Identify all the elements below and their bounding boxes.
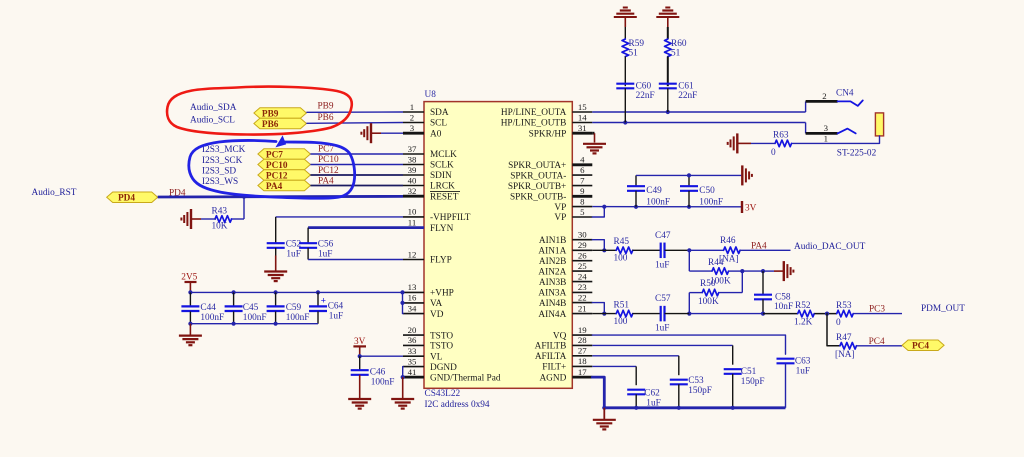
CN4 jack sleeve body [875, 113, 883, 136]
svg-text:5: 5 [580, 207, 585, 217]
port flag PB9 [254, 108, 307, 119]
pin 22 AIN4B stub [572, 302, 592, 304]
wire PB9 to pin 1 [306, 111, 403, 113]
R45 to C47 wire [633, 249, 661, 251]
junction VP pins [602, 205, 606, 209]
wire R44 to junction [729, 270, 742, 272]
svg-text:C63: C63 [795, 356, 811, 366]
R51 to C57 wire [633, 313, 661, 315]
pin 7 SPKR_OUTB+ stub [572, 185, 592, 187]
wire C49/C50 tops to ground [636, 174, 741, 176]
2V5 rail wire to pin 13 [190, 291, 403, 293]
wire PA4 to pin 40 [310, 185, 403, 187]
wire to sideways ground [763, 270, 774, 272]
resistor R63 [775, 140, 792, 147]
svg-text:C45: C45 [243, 303, 259, 313]
pin 4 SPKR_OUTA+ stub [572, 163, 592, 166]
pin 36 TSTO stub [403, 344, 424, 346]
svg-text:6: 6 [580, 165, 585, 175]
op-amp U8 CS43L22 codec body [424, 102, 572, 389]
svg-text:SPKR/HP: SPKR/HP [529, 129, 567, 139]
svg-text:SPKR_OUTA-: SPKR_OUTA- [510, 171, 566, 181]
junction node after C47 [687, 248, 691, 252]
svg-text:C56: C56 [318, 240, 334, 250]
svg-text:12: 12 [408, 249, 417, 259]
ground below C46 [348, 398, 371, 400]
wire pin 14 HP/LINE_OUTB to jack pin 3 [592, 122, 805, 124]
capacitor C52 1uF [275, 217, 277, 243]
junction C44 bottom [188, 322, 192, 326]
wire junction to C58 bottom node [689, 313, 763, 315]
svg-text:11: 11 [408, 217, 416, 227]
pin 2 SCL stub [403, 122, 424, 124]
wire junction to C58 node [742, 270, 763, 272]
wire pin 11 FLYN to C56 [308, 226, 403, 229]
svg-text:AFILTA: AFILTA [535, 352, 567, 362]
junction 3V/C46 [358, 354, 362, 358]
svg-text:PDM_OUT: PDM_OUT [921, 304, 965, 314]
pin 6 SPKR_OUTA- stub [572, 174, 592, 176]
port flag PA4 [258, 180, 311, 191]
svg-text:38: 38 [408, 154, 417, 164]
svg-text:SCL: SCL [430, 119, 447, 129]
junction C50 top [687, 173, 691, 177]
svg-text:R53: R53 [836, 301, 852, 311]
svg-text:35: 35 [408, 356, 417, 366]
wire junction down to R43 [243, 197, 245, 219]
svg-text:Audio_SDA: Audio_SDA [190, 103, 237, 113]
capacitor C64 1uF polarized [317, 292, 319, 306]
svg-text:25: 25 [578, 261, 587, 271]
svg-text:2: 2 [822, 91, 826, 101]
pin 18 FILT+ stub [572, 365, 592, 367]
pin 13 +VHP stub [403, 291, 424, 293]
svg-text:22nF: 22nF [678, 91, 697, 101]
wire to R44 [689, 270, 711, 272]
junction C61 on pin15 wire [666, 110, 670, 114]
svg-text:TSTO: TSTO [430, 342, 453, 352]
wire C56 to pin 12 FLYP [308, 259, 403, 261]
svg-text:R52: R52 [795, 301, 811, 311]
svg-text:A0: A0 [430, 129, 442, 139]
pin 9 SPKR_OUTB- stub [572, 195, 592, 198]
svg-text:+: + [321, 297, 326, 307]
wire R46 to Audio_DAC_OUT [740, 249, 791, 251]
svg-text:15: 15 [578, 102, 587, 112]
svg-text:PC4: PC4 [912, 342, 929, 352]
resistor R44 100K [712, 268, 729, 275]
capacitor C51 150pF [724, 368, 742, 370]
svg-text:100nF: 100nF [286, 313, 310, 323]
svg-text:41: 41 [408, 367, 417, 377]
svg-text:C49: C49 [646, 186, 662, 196]
earth ground above R59 [614, 16, 637, 18]
pin 8 VP stub [572, 206, 592, 208]
junction C60 on pin14 wire [623, 120, 627, 124]
svg-text:AIN3A: AIN3A [538, 289, 566, 299]
svg-text:10nF: 10nF [774, 302, 793, 312]
capacitor C50 100nF [688, 175, 690, 186]
svg-text:MCLK: MCLK [430, 150, 457, 160]
capacitor C60 22nF [616, 83, 634, 85]
junction C53 on bus [677, 406, 681, 410]
svg-text:C58: C58 [775, 292, 791, 302]
svg-text:Audio_SCL: Audio_SCL [190, 116, 235, 126]
svg-text:VD: VD [430, 310, 444, 320]
svg-text:FLYN: FLYN [430, 224, 454, 234]
svg-text:8: 8 [580, 196, 585, 206]
pin 19 VQ stub [572, 334, 592, 336]
wire node down to R47 row [827, 314, 840, 346]
capacitor C49 100nF [635, 175, 637, 186]
capacitor C63 1uF [777, 358, 795, 360]
wire pin 17 AGND to ground bus [592, 377, 604, 408]
pin 3 A0 stub [403, 132, 424, 135]
CN4 pin 2 contact [806, 100, 838, 103]
ground below AGND bus [603, 408, 605, 419]
svg-text:150pF: 150pF [741, 377, 765, 387]
svg-text:C57: C57 [655, 294, 671, 304]
svg-text:19: 19 [578, 325, 587, 335]
svg-text:1uF: 1uF [796, 367, 810, 377]
junction C64 top [316, 290, 320, 294]
wire node down to R44 row [688, 250, 690, 271]
svg-text:PC7: PC7 [318, 145, 334, 155]
resistor R51 100 [616, 310, 633, 317]
pin 28 AFILTB stub [572, 344, 592, 346]
svg-text:21: 21 [578, 303, 587, 313]
wire pin21 to R51 [592, 313, 616, 315]
pin 31 SPKR/HP stub [572, 132, 592, 135]
svg-text:SDIN: SDIN [430, 171, 452, 181]
svg-text:20: 20 [408, 325, 417, 335]
svg-text:30: 30 [578, 230, 587, 240]
pin 32 RESET stub [403, 195, 424, 198]
ground below C52 [264, 270, 287, 272]
svg-text:RESET: RESET [430, 192, 459, 202]
junction R44 right [740, 269, 744, 273]
svg-text:29: 29 [578, 240, 587, 250]
svg-text:34: 34 [408, 303, 417, 313]
resistor R47 [NA] [840, 343, 857, 350]
wire pin 27 AFILTA to C53 [592, 355, 679, 357]
svg-text:100nF: 100nF [243, 313, 267, 323]
resistor R59 51 [622, 39, 629, 57]
svg-text:SPKR_OUTB+: SPKR_OUTB+ [508, 182, 566, 192]
svg-text:100: 100 [614, 253, 628, 263]
svg-text:C47: C47 [655, 231, 671, 241]
wire RESET net PD4 to pin 32 [158, 195, 403, 198]
svg-text:22: 22 [578, 292, 587, 302]
pin 14 HP/LINE_OUTB stub [572, 122, 592, 124]
junction C49 bottom [634, 205, 638, 209]
bottom wire of decoupling caps [190, 323, 318, 325]
pin 21 AIN4A stub [572, 313, 592, 315]
ground below C44 [189, 324, 191, 335]
svg-text:C50: C50 [699, 186, 715, 196]
svg-text:R44: R44 [708, 258, 724, 268]
svg-text:3: 3 [410, 123, 415, 133]
svg-text:AGND: AGND [539, 373, 566, 383]
port flag PC7 [258, 149, 311, 160]
svg-text:9: 9 [580, 186, 585, 196]
junction AIN4 [602, 312, 606, 316]
svg-text:PD4: PD4 [169, 188, 186, 198]
svg-text:FLYP: FLYP [430, 256, 452, 266]
junction AGND bus [602, 406, 606, 410]
sideways ground right of C50 [741, 165, 743, 185]
pin 27 AFILTA stub [572, 355, 592, 357]
junction C50 bottom [687, 205, 691, 209]
junction DGND [401, 375, 405, 379]
svg-text:SDA: SDA [430, 108, 449, 118]
wire pin 15 HP/LINE_OUTA to jack pin 2 [592, 111, 805, 113]
svg-text:33: 33 [408, 346, 417, 356]
svg-text:CN4: CN4 [836, 88, 854, 98]
earth ground above R60 [656, 16, 679, 18]
svg-text:PD4: PD4 [118, 194, 135, 204]
svg-text:100nF: 100nF [646, 198, 670, 208]
svg-text:AIN2B: AIN2B [539, 257, 566, 267]
svg-text:HP/LINE_OUTB: HP/LINE_OUTB [501, 119, 567, 129]
capacitor C47 1uF [660, 243, 662, 258]
junction C58 top [761, 269, 765, 273]
svg-text:C44: C44 [200, 303, 216, 313]
pin 23 AIN3A stub [572, 291, 592, 293]
resistor R60 51 [665, 39, 672, 57]
svg-text:AIN2A: AIN2A [538, 267, 566, 277]
svg-text:14: 14 [578, 112, 587, 122]
svg-text:PC4: PC4 [869, 337, 885, 347]
pin 17 AGND stub [572, 376, 592, 379]
svg-text:I2S3_MCK: I2S3_MCK [202, 145, 246, 155]
ground below DGND [402, 377, 404, 398]
R59 top lead [624, 17, 626, 27]
svg-text:GND/Thermal Pad: GND/Thermal Pad [430, 373, 501, 383]
wire R50 down to AIN4 row [688, 293, 690, 314]
ground at pin 31 SPKR/HP [592, 132, 594, 135]
power port 3V right [741, 201, 743, 213]
capacitor C56 1uF [307, 228, 309, 244]
svg-text:1.2K: 1.2K [794, 317, 813, 327]
R60 to C61 lead [667, 57, 669, 87]
svg-text:U8: U8 [425, 90, 437, 100]
svg-text:PB6: PB6 [318, 113, 334, 123]
svg-text:FILT+: FILT+ [542, 363, 566, 373]
svg-text:AIN1B: AIN1B [539, 236, 566, 246]
svg-text:PA4: PA4 [266, 182, 283, 192]
svg-text:Audio_DAC_OUT: Audio_DAC_OUT [794, 242, 866, 252]
svg-text:I2S3_SD: I2S3_SD [202, 166, 236, 176]
wire R53 to PDM_OUT [854, 313, 903, 315]
junction AIN1 [602, 248, 606, 252]
svg-text:AIN1A: AIN1A [538, 247, 566, 257]
wire PC10 to pin 38 [310, 164, 403, 166]
svg-text:R46: R46 [720, 236, 736, 246]
svg-text:VA: VA [430, 299, 443, 309]
wire pin 35 DGND down to pin 41 [402, 367, 404, 378]
pin 26 AIN2B stub [572, 260, 592, 262]
capacitor C59 100nF [275, 292, 277, 306]
R59 to C60 lead [624, 57, 626, 87]
svg-text:7: 7 [580, 175, 585, 185]
svg-text:-VHPFILT: -VHPFILT [430, 213, 471, 223]
svg-text:I2S3_WS: I2S3_WS [202, 177, 238, 187]
svg-text:C61: C61 [678, 82, 694, 92]
pin 35 DGND stub [403, 366, 424, 368]
junction C45 bottom [232, 322, 236, 326]
capacitor C62 1uF [627, 389, 645, 391]
svg-text:AIN4A: AIN4A [538, 310, 566, 320]
svg-text:24: 24 [578, 271, 587, 281]
wire R52 to R53 node [815, 313, 837, 315]
pin 1 SDA stub [403, 111, 424, 113]
svg-text:36: 36 [408, 335, 417, 345]
junction C59 top [274, 290, 278, 294]
junction R50 bottom [687, 312, 691, 316]
pin 24 AIN3B stub [572, 281, 592, 283]
wire pin 10 -VHPFILT to C52 [276, 216, 403, 218]
resistor R52 1.2K [798, 310, 815, 317]
wire pin29 to R45 [592, 249, 616, 251]
svg-text:0: 0 [771, 148, 776, 158]
pin 11 FLYN stub [403, 226, 424, 229]
svg-text:100nF: 100nF [200, 313, 224, 323]
svg-text:1uF: 1uF [318, 249, 332, 259]
C57 to junction wire [665, 313, 690, 315]
wire down to VA and VD pins [402, 292, 405, 313]
pin 33 VL stub [403, 355, 424, 357]
wire VP pin 5 up to bus [592, 207, 604, 217]
svg-text:PC3: PC3 [869, 304, 885, 314]
wire to R52 [763, 313, 798, 315]
svg-text:1uF: 1uF [286, 249, 300, 259]
port flag PB6 [254, 118, 307, 129]
capacitor C58 10nF [762, 271, 764, 295]
wire pin 18 FILT+ to C62 [592, 365, 636, 367]
svg-text:SPKR_OUTB-: SPKR_OUTB- [510, 193, 566, 203]
C61 lead down to pin15 wire [667, 88, 669, 112]
junction R52-R53 node [825, 312, 829, 316]
svg-text:39: 39 [408, 165, 417, 175]
resistor R53 0 [837, 310, 854, 317]
port flag PC4 [902, 340, 944, 351]
svg-text:13: 13 [408, 282, 417, 292]
R60 top lead [667, 17, 669, 27]
pin 5 VP stub [572, 216, 592, 218]
pin 41 GND/Thermal Pad stub [403, 376, 424, 379]
svg-text:4: 4 [580, 155, 585, 165]
svg-text:I2C address 0x94: I2C address 0x94 [425, 400, 490, 410]
pin 15 HP/LINE_OUTA stub [572, 111, 592, 113]
resistor R46 [NA] [724, 247, 741, 254]
AGND bottom bus [604, 406, 785, 409]
svg-text:1: 1 [410, 102, 414, 112]
svg-text:VP: VP [554, 203, 566, 213]
capacitor C53 150pF [670, 379, 688, 381]
wire PC12 to pin 39 [310, 174, 403, 176]
svg-text:SPKR_OUTA+: SPKR_OUTA+ [508, 161, 566, 171]
resistor R45 100 [616, 247, 633, 254]
junction on RESET net [242, 195, 246, 199]
svg-text:3V: 3V [745, 203, 757, 213]
svg-text:1uF: 1uF [329, 312, 343, 322]
svg-text:28: 28 [578, 335, 587, 345]
capacitor C44 100nF [189, 292, 191, 306]
svg-text:51: 51 [629, 49, 639, 59]
C47 to node wire [665, 249, 690, 251]
svg-text:PB6: PB6 [262, 120, 279, 130]
svg-text:26: 26 [578, 251, 587, 261]
svg-text:Audio_RST: Audio_RST [32, 188, 77, 198]
svg-text:PA4: PA4 [318, 176, 334, 186]
svg-text:18: 18 [578, 356, 587, 366]
svg-text:VP: VP [554, 213, 566, 223]
svg-text:PA4: PA4 [751, 242, 767, 252]
svg-text:10: 10 [408, 207, 417, 217]
svg-text:C60: C60 [636, 82, 652, 92]
svg-text:R45: R45 [614, 237, 630, 247]
pin 38 SCLK stub [403, 164, 424, 166]
svg-text:AIN4B: AIN4B [539, 299, 566, 309]
blue annotation arrowhead [277, 137, 286, 147]
svg-text:27: 27 [578, 346, 587, 356]
junction C51 on bus [731, 406, 735, 410]
svg-text:R47: R47 [836, 333, 852, 343]
svg-text:+VHP: +VHP [430, 289, 454, 299]
sideways ground right of R44 [783, 261, 785, 281]
svg-text:31: 31 [578, 123, 587, 133]
pin 20 TSTO stub [403, 334, 424, 336]
junction C62 on bus [634, 406, 638, 410]
svg-text:C51: C51 [741, 367, 757, 377]
ground at pin 3 A0 [370, 123, 372, 143]
ground at R43 [192, 218, 201, 220]
capacitor C61 22nF [659, 83, 677, 85]
svg-text:R59: R59 [629, 39, 645, 49]
C52 ground stem [275, 256, 277, 271]
svg-text:10K: 10K [212, 221, 228, 231]
capacitor C57 1uF [660, 306, 662, 322]
svg-text:37: 37 [408, 144, 417, 154]
wire R47 to PC4 flag [857, 345, 903, 347]
junction C58 bottom [761, 312, 765, 316]
svg-text:100K: 100K [698, 297, 719, 307]
svg-text:1: 1 [824, 133, 828, 143]
capacitor C46 100nF [359, 356, 361, 370]
svg-text:AFILTB: AFILTB [535, 342, 567, 352]
junction C59 bottom [274, 322, 278, 326]
svg-text:1uF: 1uF [655, 260, 669, 270]
wire VP pin 8 bus [592, 206, 741, 208]
svg-text:100nF: 100nF [699, 198, 723, 208]
svg-text:VQ: VQ [553, 331, 567, 341]
svg-text:SCLK: SCLK [430, 161, 454, 171]
svg-text:R63: R63 [773, 131, 789, 141]
svg-text:C53: C53 [688, 376, 704, 386]
wire pin 19 VQ to C63 [592, 335, 785, 354]
port flag PD4 [107, 192, 158, 203]
pin 12 FLYP stub [403, 259, 424, 261]
pin 29 AIN1A stub [572, 249, 592, 251]
svg-text:51: 51 [671, 49, 681, 59]
ground at R63 [736, 133, 738, 153]
svg-text:CS43L22: CS43L22 [425, 389, 461, 399]
svg-text:C59: C59 [286, 303, 302, 313]
svg-text:R43: R43 [212, 206, 228, 216]
svg-text:VL: VL [430, 352, 443, 362]
svg-text:16: 16 [408, 293, 417, 303]
